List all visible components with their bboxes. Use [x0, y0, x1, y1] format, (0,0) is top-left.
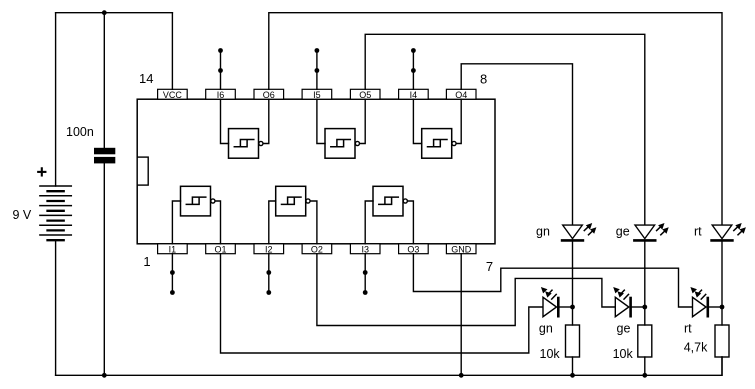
IC U1 body	[137, 99, 495, 244]
wire battery top lead	[55, 13, 57, 186]
wire battery bottom lead	[55, 240, 57, 375]
junction ge LEDs	[642, 305, 647, 310]
svg-text:4,7k: 4,7k	[684, 341, 708, 355]
pin I6	[206, 89, 236, 100]
svg-text:10k: 10k	[613, 347, 634, 361]
pin GND	[446, 244, 476, 255]
resistor R1 10k	[540, 307, 580, 375]
node stub I1	[170, 254, 175, 295]
pin O3	[399, 244, 429, 255]
svg-text:7: 7	[486, 259, 493, 274]
node stub I4	[411, 48, 416, 89]
pin O1	[206, 244, 236, 255]
svg-text:rt: rt	[684, 322, 692, 336]
LED D6 rt bottom	[690, 287, 722, 317]
svg-text:rt: rt	[694, 224, 702, 238]
svg-text:14: 14	[139, 71, 153, 86]
pin VCC	[158, 89, 188, 100]
node stub I2	[266, 254, 271, 295]
node stub I3	[363, 254, 368, 295]
pin O6	[254, 89, 284, 100]
wire O1 to gn bottom LED	[221, 254, 544, 353]
junction rt LEDs	[720, 305, 725, 310]
pin I5	[302, 89, 332, 100]
junction R2 rail	[642, 373, 647, 378]
pin I4	[399, 89, 429, 100]
junction cap bottom	[102, 373, 107, 378]
LED D1 gn top	[562, 223, 596, 240]
pin I1	[158, 244, 188, 255]
svg-text:10k: 10k	[540, 347, 561, 361]
battery BT1 9V	[13, 13, 72, 376]
LED D5 ge bottom	[613, 287, 645, 317]
wire rt top LED to junction	[721, 242, 723, 307]
svg-text:1: 1	[143, 254, 150, 269]
schmitt trigger U1B (I2-O2)	[269, 186, 317, 244]
resistor R2 10k	[613, 307, 652, 375]
pin O2	[302, 244, 332, 255]
cap plates	[94, 148, 115, 155]
LED D3 rt top	[712, 223, 746, 240]
pin I3	[350, 244, 380, 255]
junction cap top	[102, 10, 107, 15]
wire O6 to red LED column	[269, 13, 722, 225]
svg-text:ge: ge	[616, 224, 630, 238]
wire GND down	[460, 254, 462, 376]
node stub I5	[315, 48, 320, 89]
capacitor C1 100n	[66, 13, 115, 376]
wire top rail battery to VCC	[56, 12, 173, 14]
junction GND rail	[459, 373, 464, 378]
svg-text:gn: gn	[539, 322, 553, 336]
battery plates	[40, 186, 71, 240]
LED D4 gn bottom	[541, 287, 573, 317]
svg-text:8: 8	[480, 71, 487, 86]
svg-text:ge: ge	[617, 322, 631, 336]
pin I2	[254, 244, 284, 255]
wire ge top LED to junction	[644, 242, 646, 307]
schmitt trigger U1F (I6-O6)	[221, 99, 269, 158]
wire VCC down	[171, 13, 173, 90]
svg-text:9 V: 9 V	[13, 208, 32, 222]
wire cap top lead	[103, 13, 105, 148]
junction R1 rail	[570, 373, 575, 378]
wire O3 to rt bottom LED	[413, 254, 692, 307]
svg-text:gn: gn	[536, 224, 550, 238]
wire O5 to yellow LED column	[365, 34, 645, 225]
pin O5	[350, 89, 380, 100]
LED D2 ge top	[634, 223, 668, 240]
wire O4 to green LED column	[461, 64, 572, 225]
wire cap bottom lead	[103, 163, 105, 375]
schmitt trigger U1E (I5-O5)	[317, 99, 365, 158]
resistor R3 4,7k	[684, 307, 729, 375]
schmitt trigger U1C (I3-O3)	[365, 186, 413, 244]
node stub I6	[218, 48, 223, 89]
wire O2 to ge bottom LED	[317, 254, 615, 326]
schmitt trigger U1A (I1-O1)	[172, 186, 220, 244]
plus sign	[38, 168, 45, 175]
schmitt trigger U1D (I4-O4)	[413, 99, 461, 158]
IC notch	[137, 157, 148, 185]
wire bottom rail	[56, 357, 722, 375]
junction gn LEDs	[570, 305, 575, 310]
pin O4	[446, 89, 476, 100]
svg-text:VCC: VCC	[163, 90, 183, 100]
svg-text:100n: 100n	[66, 125, 94, 139]
wire gn top LED to junction	[572, 242, 574, 307]
